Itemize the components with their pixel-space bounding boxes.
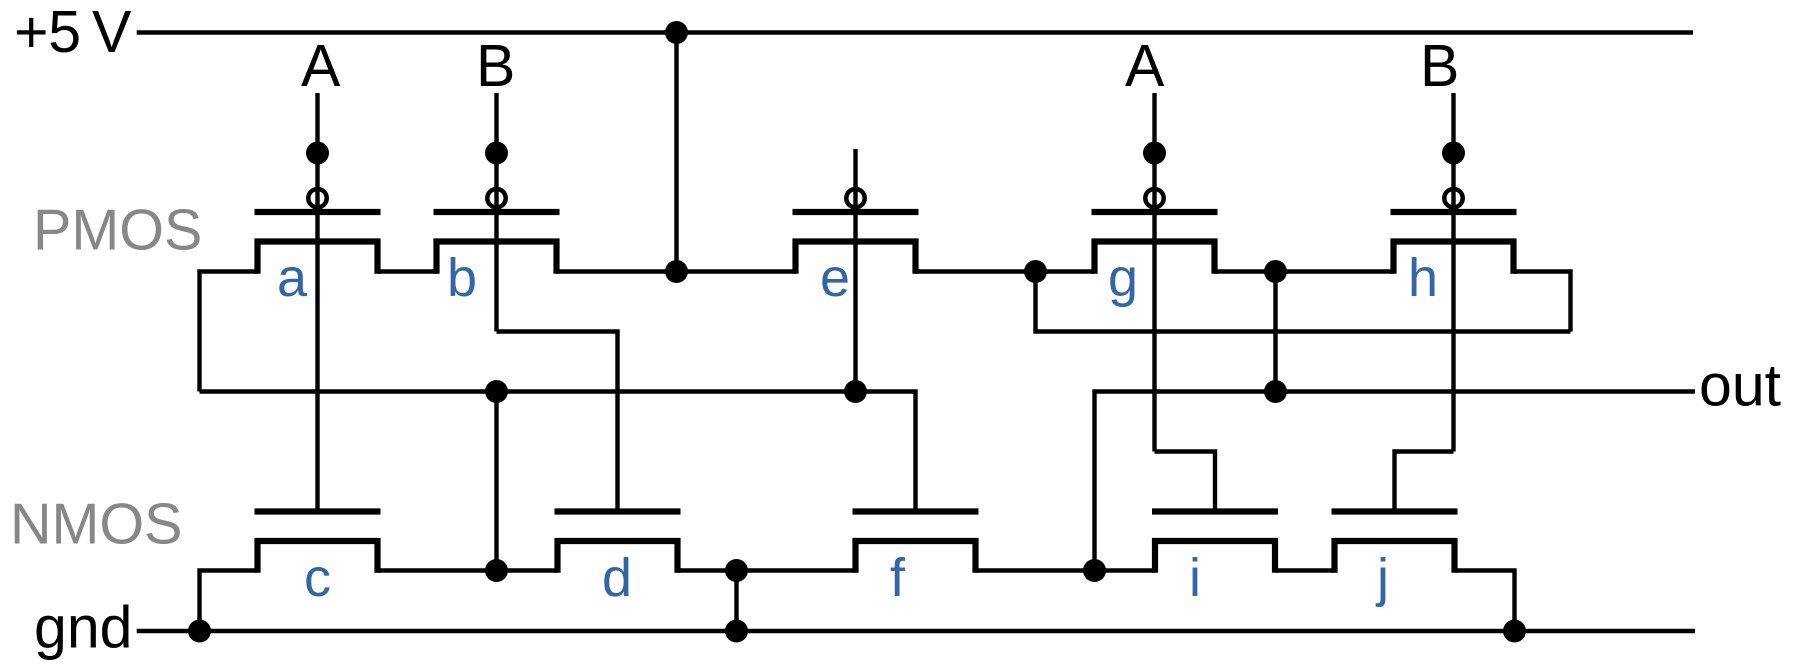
power rail +5V bbox=[137, 30, 1693, 34]
label B (right) bbox=[1420, 33, 1459, 99]
label a bbox=[277, 248, 308, 308]
wire c source to gnd bbox=[200, 571, 258, 632]
node c-d junction dot bbox=[485, 559, 508, 582]
transistor g (PMOS) bbox=[1092, 189, 1218, 274]
label g bbox=[1108, 248, 1138, 308]
label A (right) bbox=[1125, 33, 1165, 99]
wire node1 bbox=[200, 392, 916, 509]
svg-text:gnd: gnd bbox=[34, 595, 132, 661]
svg-text:c: c bbox=[304, 548, 331, 608]
label e bbox=[820, 248, 850, 308]
node e-g junction dot bbox=[1024, 260, 1047, 283]
wire g drain to out bbox=[1273, 272, 1277, 392]
wire h drain right corner bbox=[1514, 272, 1571, 332]
node g-h junction dot bbox=[1264, 260, 1287, 283]
svg-text:e: e bbox=[820, 248, 850, 308]
node B-right branch dot bbox=[1442, 142, 1465, 165]
svg-text:5: 5 bbox=[48, 0, 81, 65]
node +5V PMOS junction dot bbox=[665, 260, 688, 283]
node d-f gnd dot bbox=[725, 620, 748, 643]
transistor j (NMOS) bbox=[1332, 512, 1458, 573]
label h bbox=[1408, 248, 1438, 308]
wire g drain to h source bbox=[1215, 269, 1394, 273]
svg-text:NMOS: NMOS bbox=[10, 493, 183, 557]
label b bbox=[447, 248, 477, 308]
node B-left branch dot bbox=[485, 142, 508, 165]
wire e drain to g source bbox=[916, 269, 1095, 273]
transistor b (PMOS) bbox=[434, 189, 560, 274]
wire input A right bbox=[1152, 93, 1156, 452]
wire j drain to gnd corner bbox=[1455, 571, 1515, 632]
wire a drain to b source bbox=[378, 269, 437, 273]
label c bbox=[304, 548, 331, 608]
wire i drain to j source bbox=[1275, 568, 1335, 572]
svg-text:A: A bbox=[1125, 33, 1165, 99]
svg-text:+: + bbox=[14, 0, 48, 65]
label B (left) bbox=[476, 33, 515, 99]
label A (left) bbox=[301, 33, 341, 99]
wire node1 to c-d junction bbox=[494, 392, 498, 571]
wire B jog to j gate bbox=[1395, 452, 1454, 509]
svg-text:i: i bbox=[1189, 548, 1201, 608]
wire input B right bbox=[1451, 93, 1455, 452]
svg-text:b: b bbox=[447, 248, 477, 308]
node d-f junction dot bbox=[725, 559, 748, 582]
svg-text:A: A bbox=[301, 33, 341, 99]
transistor h (PMOS) bbox=[1391, 189, 1517, 274]
node c gnd dot bbox=[188, 620, 211, 643]
svg-text:g: g bbox=[1108, 248, 1138, 308]
wire d-f node to gnd bbox=[734, 571, 738, 632]
wire e gate stem bbox=[853, 149, 857, 392]
node A-right branch dot bbox=[1143, 142, 1166, 165]
node node1-cd branch dot bbox=[485, 380, 508, 403]
node A-left branch dot bbox=[306, 142, 329, 165]
wire h return to e-g node bbox=[1036, 272, 1571, 332]
wire b drain to e source bbox=[557, 269, 796, 273]
label f bbox=[890, 548, 906, 608]
wire input A left bbox=[315, 93, 319, 509]
svg-text:a: a bbox=[277, 248, 308, 308]
wire c drain to d source bbox=[378, 568, 558, 572]
label d bbox=[602, 548, 632, 608]
svg-text:V: V bbox=[92, 0, 132, 65]
wire +5V drop bbox=[674, 33, 678, 272]
transistor d (NMOS) bbox=[555, 512, 681, 573]
wire B jog to d gate bbox=[497, 332, 618, 509]
svg-text:out: out bbox=[1699, 353, 1781, 419]
transistor i (NMOS) bbox=[1152, 512, 1278, 573]
wire out bbox=[1095, 392, 1696, 571]
transistor a (PMOS) bbox=[255, 189, 381, 274]
node f-i junction dot bbox=[1083, 559, 1106, 582]
svg-text:B: B bbox=[476, 33, 515, 99]
wire f drain to i source bbox=[976, 568, 1156, 572]
svg-text:j: j bbox=[1375, 548, 1389, 608]
node +5V rail junction dot bbox=[665, 21, 688, 44]
wire A jog to i gate bbox=[1155, 452, 1216, 509]
svg-text:f: f bbox=[890, 548, 906, 608]
label NMOS bbox=[10, 493, 183, 557]
label gnd bbox=[34, 595, 132, 661]
label out bbox=[1699, 353, 1781, 419]
transistor c (NMOS) bbox=[255, 512, 381, 573]
svg-text:d: d bbox=[602, 548, 632, 608]
label j bbox=[1375, 548, 1389, 608]
ground rail bbox=[137, 629, 1695, 633]
node g-drain out dot bbox=[1264, 380, 1287, 403]
transistor f (NMOS) bbox=[853, 512, 979, 573]
label i bbox=[1189, 548, 1201, 608]
svg-text:PMOS: PMOS bbox=[33, 199, 202, 263]
node j gnd dot bbox=[1503, 620, 1526, 643]
transistor e (PMOS) bbox=[793, 189, 919, 274]
node e gate terminal dot bbox=[844, 380, 867, 403]
label PMOS bbox=[33, 199, 202, 263]
wire input B left bbox=[494, 93, 498, 332]
wire d drain to f source bbox=[678, 568, 856, 572]
label +5 V bbox=[14, 0, 132, 65]
wire a source to left corner bbox=[200, 272, 258, 392]
svg-text:B: B bbox=[1420, 33, 1459, 99]
svg-text:h: h bbox=[1408, 248, 1438, 308]
